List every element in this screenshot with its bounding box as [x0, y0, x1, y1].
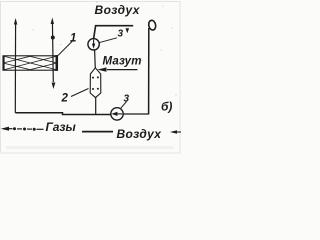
Газы line dots	[13, 127, 16, 130]
fuel oil inlet arrowhead	[97, 67, 106, 71]
pipe pump to mixer	[94, 50, 97, 69]
pipe pump to riser	[123, 113, 149, 115]
Газы flow line (dash-dot, arrow left)	[3, 128, 44, 131]
svg-text:Воздух: Воздух	[117, 127, 163, 141]
top pipe corner to air outlet	[94, 26, 134, 39]
svg-text:3: 3	[124, 94, 130, 105]
air flow line right (through exchanger)	[51, 20, 54, 82]
air inlet arrowhead right	[176, 131, 181, 133]
svg-text:б): б)	[161, 100, 172, 114]
arrowhead up on left riser	[14, 18, 17, 25]
svg-text:Воздух: Воздух	[95, 3, 141, 17]
scan border frame	[1, 2, 181, 154]
label 3 (bottom) leader	[121, 102, 127, 109]
arrowhead down below exchanger	[52, 83, 56, 90]
Газы line arrowhead left	[1, 127, 9, 131]
label 2 leader	[71, 89, 89, 97]
arrowhead up on right line	[51, 18, 54, 25]
scan smudge bottom	[6, 146, 174, 149]
mixer/heater 2 (spindle body)	[90, 68, 101, 98]
svg-text:2: 2	[61, 93, 69, 105]
fuel-oil pump 3 (top circle with down arrow)	[88, 39, 99, 50]
label 3 (top) leader	[99, 38, 118, 43]
air pump 3 (bottom circle with left arrow)	[111, 108, 123, 120]
mixer internal marks	[92, 76, 99, 90]
svg-text:1: 1	[70, 33, 76, 45]
scan speckles	[32, 1, 176, 95]
stem mixer to bottom pipe	[95, 98, 97, 114]
junction dot on right line	[51, 36, 55, 40]
svg-text:3: 3	[118, 29, 124, 40]
Воздух bottom feed line	[82, 131, 113, 133]
label 1 leader	[58, 41, 73, 56]
air flow line left (riser through exchanger)	[14, 21, 16, 113]
svg-text:Газы: Газы	[46, 120, 77, 134]
recirculation riser with loop top	[148, 28, 150, 115]
fuel oil inlet arrow	[107, 69, 138, 71]
bottom fuel pipe (left corner and run)	[15, 113, 110, 115]
small arrowhead below outlet line	[126, 28, 130, 33]
svg-text:Мазут: Мазут	[103, 56, 142, 68]
heat exchanger 1 (air preheater body)	[3, 55, 58, 71]
